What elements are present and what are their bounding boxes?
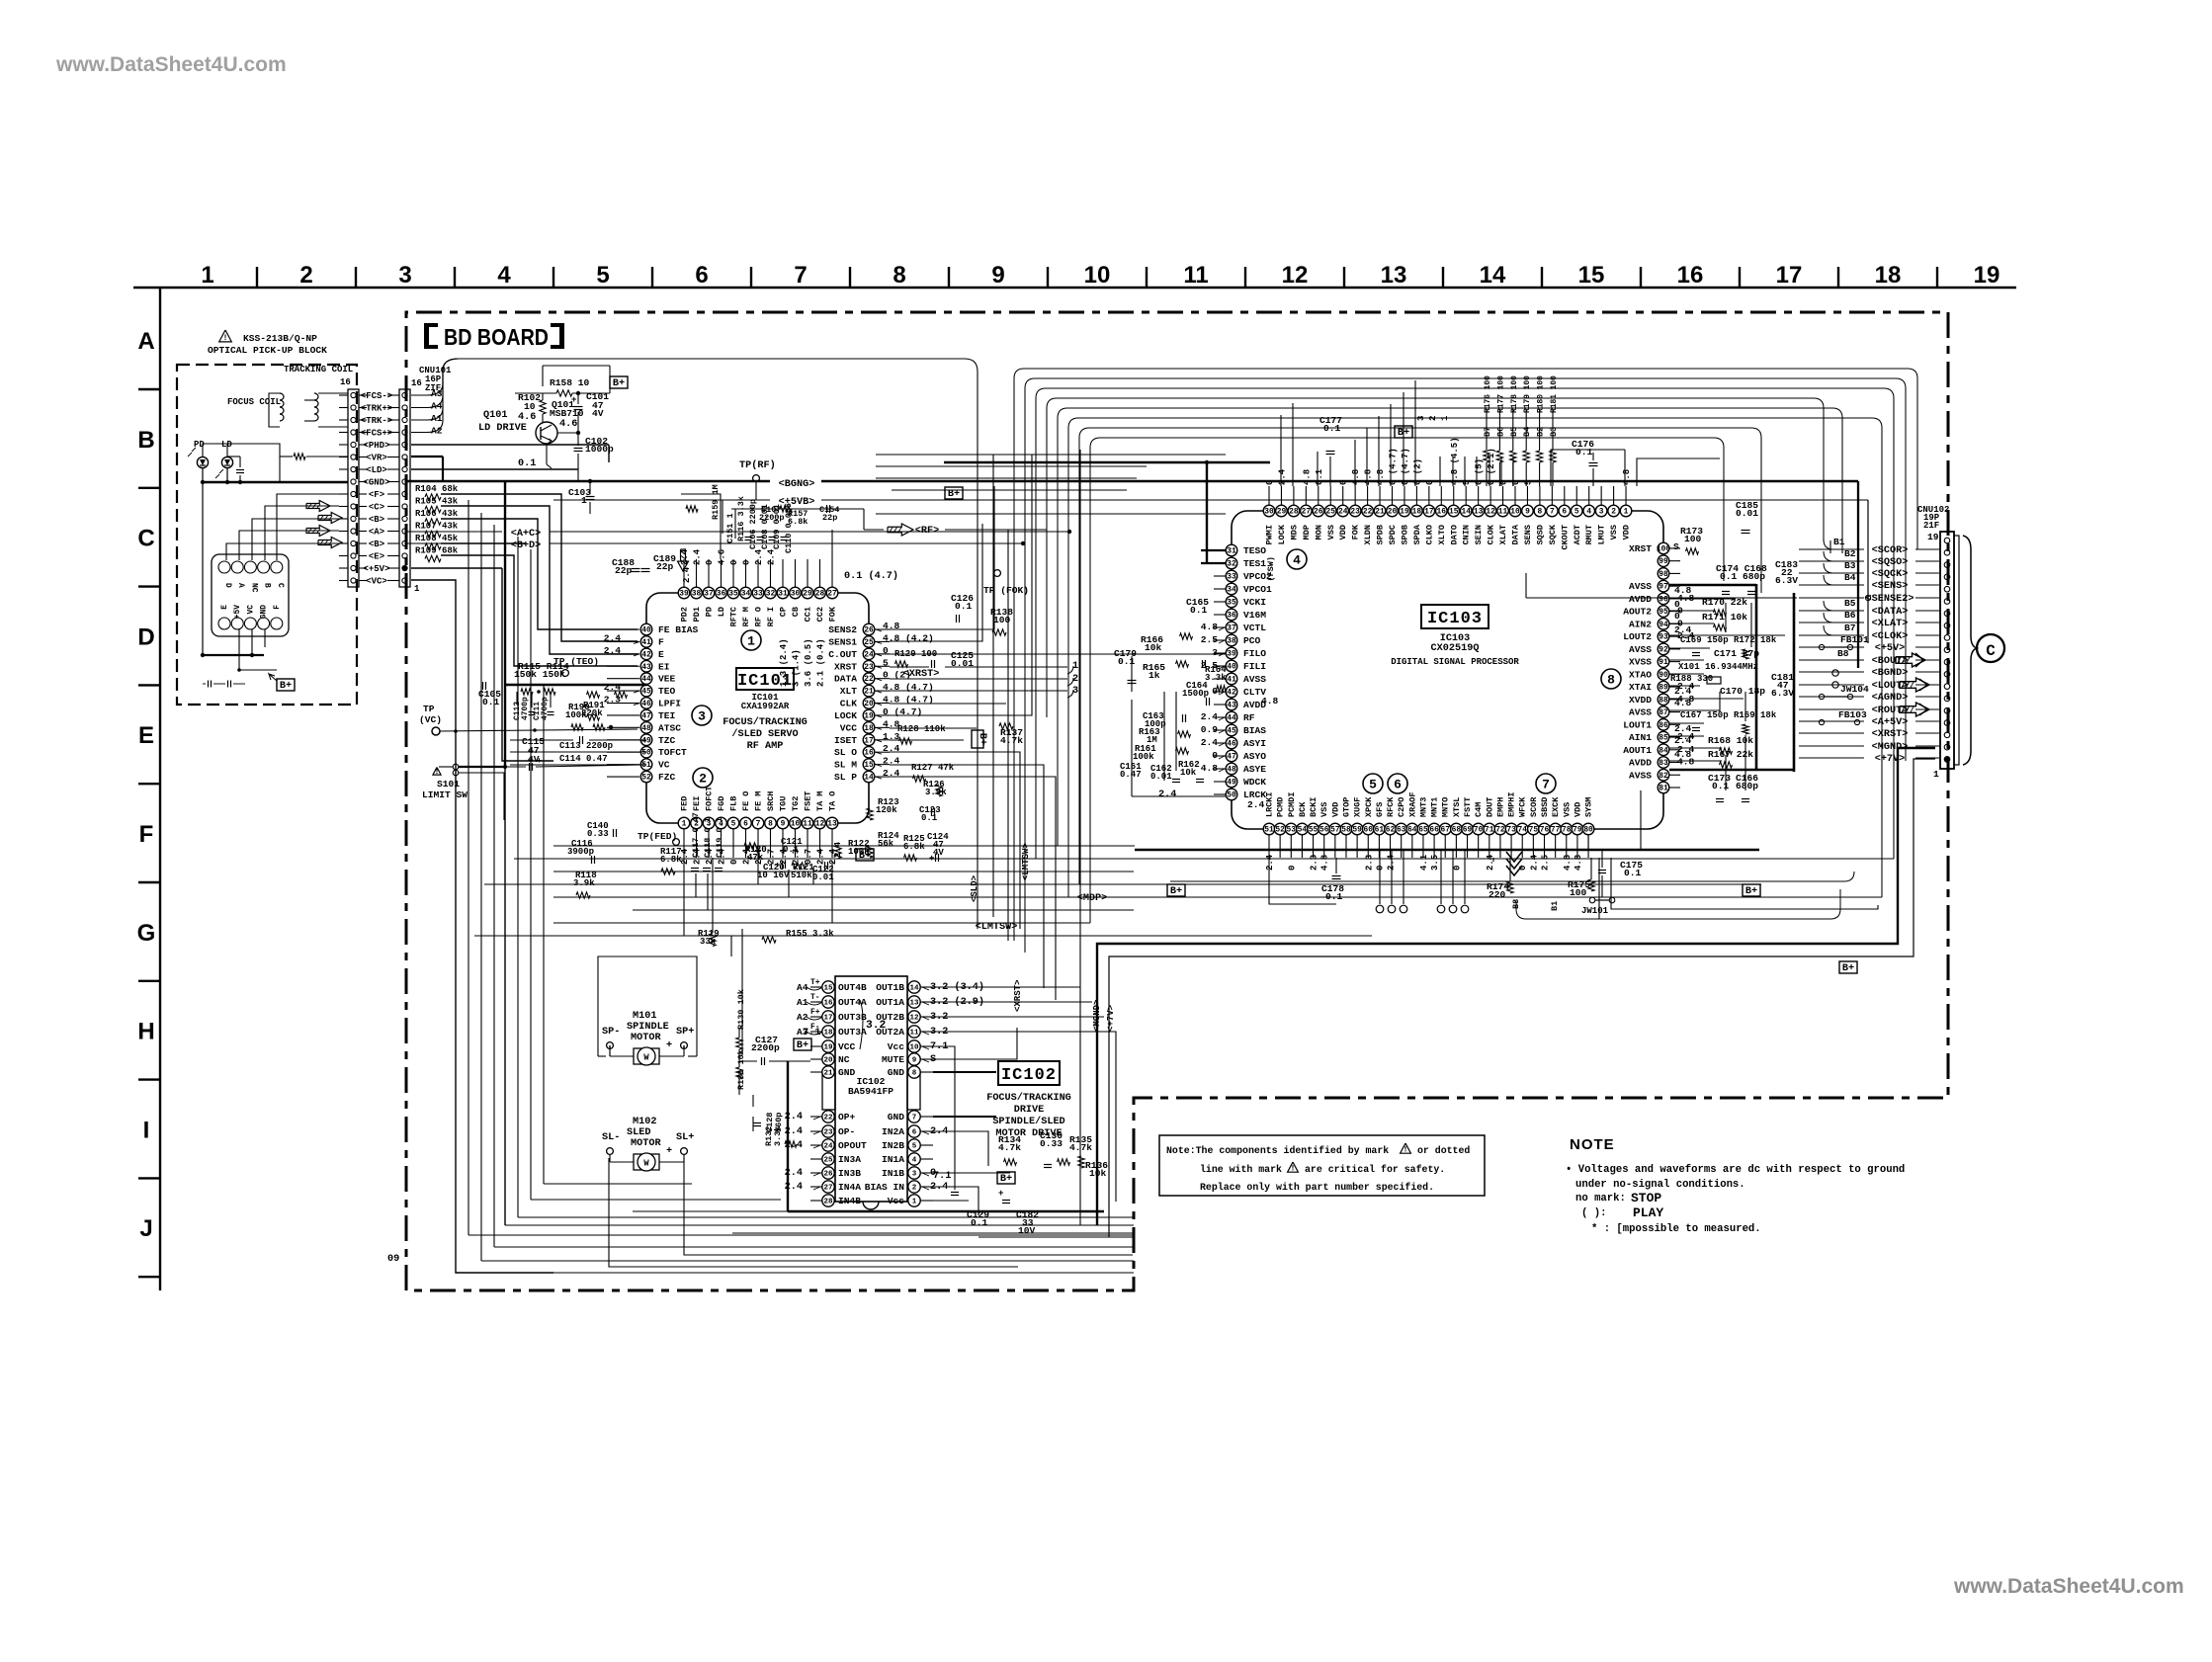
- svg-text:CC1: CC1: [804, 607, 813, 622]
- svg-text:XLDN: XLDN: [1363, 525, 1373, 544]
- svg-text:8: 8: [1607, 673, 1615, 688]
- svg-text:VDD: VDD: [1338, 525, 1348, 540]
- svg-text:21: 21: [864, 688, 874, 697]
- svg-text:under no-signal conditions.: under no-signal conditions.: [1575, 1179, 1745, 1191]
- svg-text:OUT1B: OUT1B: [876, 982, 904, 993]
- svg-text:<VR>: <VR>: [366, 454, 387, 463]
- svg-text:0: 0: [1265, 480, 1275, 485]
- svg-text:FE O: FE O: [741, 791, 751, 811]
- svg-text:22p: 22p: [822, 513, 837, 523]
- svg-text:1: 1: [747, 634, 755, 649]
- svg-text:48: 48: [641, 724, 651, 733]
- svg-text:53: 53: [1287, 826, 1297, 835]
- svg-text:www.DataSheet4U.com: www.DataSheet4U.com: [1953, 1575, 2184, 1598]
- svg-text:F: F: [273, 605, 282, 610]
- svg-text:99: 99: [1659, 557, 1668, 566]
- svg-text:LD DRIVE: LD DRIVE: [478, 423, 527, 434]
- svg-text:0: 0: [1674, 611, 1680, 622]
- svg-text:C170 18p: C170 18p: [1720, 686, 1765, 697]
- svg-text:RMUT: RMUT: [1584, 525, 1594, 544]
- svg-text:VPCO2: VPCO2: [1243, 571, 1272, 582]
- svg-text:30: 30: [791, 590, 801, 599]
- svg-text:<SQSO>: <SQSO>: [1872, 557, 1909, 568]
- svg-text:SL P: SL P: [834, 772, 857, 783]
- svg-text:16: 16: [340, 377, 351, 387]
- svg-text:IN4B: IN4B: [838, 1196, 861, 1206]
- svg-text:29: 29: [803, 590, 812, 599]
- svg-text:FILI: FILI: [1243, 661, 1266, 672]
- svg-text:25: 25: [823, 1156, 833, 1164]
- svg-text:<SENS>: <SENS>: [1872, 581, 1909, 592]
- svg-text:82: 82: [1659, 772, 1668, 781]
- svg-text:XRST: XRST: [1629, 543, 1652, 554]
- svg-text:49: 49: [1227, 779, 1236, 788]
- svg-text:RF AMP: RF AMP: [747, 741, 784, 752]
- svg-text:VC: VC: [658, 760, 670, 771]
- svg-text:91: 91: [1659, 658, 1668, 667]
- svg-text:1k: 1k: [1149, 670, 1160, 681]
- svg-text:VDD: VDD: [1573, 802, 1582, 817]
- svg-text:R107 43k: R107 43k: [415, 522, 459, 532]
- svg-text:44: 44: [641, 675, 651, 684]
- svg-text:51: 51: [641, 761, 651, 770]
- svg-text:4.8: 4.8: [1364, 469, 1374, 485]
- svg-text:FOFCT: FOFCT: [705, 786, 715, 811]
- svg-text:IN1B: IN1B: [882, 1168, 904, 1179]
- svg-text:46: 46: [1227, 740, 1236, 749]
- svg-text:76: 76: [1540, 826, 1550, 835]
- svg-text:45: 45: [641, 688, 651, 697]
- svg-text:15: 15: [1449, 508, 1459, 517]
- svg-text:22p: 22p: [615, 565, 633, 576]
- svg-text:B+: B+: [948, 489, 960, 500]
- svg-text:+: +: [571, 395, 576, 405]
- svg-text:R180 100: R180 100: [1537, 375, 1546, 413]
- svg-text:<SENSE2>: <SENSE2>: [1866, 594, 1914, 605]
- svg-text:AVSS: AVSS: [1629, 707, 1652, 718]
- svg-text:B+: B+: [613, 378, 625, 389]
- svg-text:PD: PD: [705, 607, 715, 617]
- svg-text:NC: NC: [838, 1054, 850, 1065]
- svg-text:4.8: 4.8: [1261, 696, 1279, 706]
- svg-text:<FCS->: <FCS->: [361, 391, 392, 401]
- svg-text:<B>: <B>: [369, 515, 384, 525]
- svg-text:83: 83: [1659, 759, 1668, 768]
- svg-text:XTSL: XTSL: [1452, 797, 1462, 817]
- svg-text:PLAY: PLAY: [1633, 1205, 1663, 1220]
- svg-text:21F: 21F: [1923, 521, 1939, 531]
- svg-text:14: 14: [864, 774, 874, 783]
- svg-text:JW104: JW104: [1840, 684, 1869, 695]
- svg-text:XVSS: XVSS: [1629, 657, 1652, 668]
- svg-text:45: 45: [1227, 727, 1236, 736]
- svg-text:A: A: [236, 583, 245, 588]
- svg-text:F: F: [658, 636, 664, 647]
- svg-text:J: J: [139, 1215, 152, 1242]
- svg-text:0.33: 0.33: [1040, 1138, 1063, 1149]
- svg-text:B3: B3: [1844, 560, 1856, 571]
- svg-text:VSS: VSS: [1326, 525, 1336, 540]
- svg-text:46: 46: [641, 700, 651, 708]
- svg-text:B1: B1: [1833, 537, 1845, 547]
- svg-text:14: 14: [909, 984, 919, 992]
- svg-text:4.8: 4.8: [1674, 749, 1692, 760]
- svg-text:37: 37: [704, 590, 714, 599]
- svg-text:52: 52: [1275, 826, 1285, 835]
- svg-text:680p: 680p: [1736, 781, 1758, 791]
- svg-text:FOCUS/TRACKING: FOCUS/TRACKING: [723, 716, 808, 728]
- svg-text:26: 26: [823, 1170, 833, 1178]
- svg-text:9: 9: [1525, 508, 1530, 517]
- svg-text:CP: CP: [779, 607, 789, 617]
- svg-text:4.8: 4.8: [1376, 469, 1386, 485]
- svg-text:56: 56: [1319, 826, 1329, 835]
- svg-text:41: 41: [641, 638, 651, 647]
- svg-text:C171 27p: C171 27p: [1714, 648, 1759, 659]
- svg-text:CNIN: CNIN: [1462, 525, 1472, 544]
- svg-text:95: 95: [1659, 608, 1668, 617]
- svg-text:36: 36: [1227, 612, 1236, 621]
- svg-text:24: 24: [823, 1142, 833, 1150]
- svg-text:XTAI: XTAI: [1629, 682, 1652, 693]
- svg-text:B+: B+: [1170, 886, 1182, 897]
- svg-text:IN2B: IN2B: [882, 1140, 904, 1151]
- svg-text:C114 0.47: C114 0.47: [559, 754, 608, 764]
- svg-text:1.3 (2.4): 1.3 (2.4): [779, 638, 789, 687]
- svg-text:16: 16: [864, 749, 874, 758]
- svg-text:PD1: PD1: [692, 607, 702, 622]
- svg-text:FED: FED: [680, 796, 690, 811]
- svg-text:18: 18: [1875, 262, 1902, 289]
- svg-text:MNT3: MNT3: [1418, 797, 1428, 817]
- svg-text:• Voltages and waveforms are d: • Voltages and waveforms are dc with res…: [1566, 1164, 1905, 1176]
- svg-text:<+7V>: <+7V>: [1106, 1005, 1116, 1032]
- svg-text:MNTO: MNTO: [1441, 797, 1451, 817]
- svg-text:VSS: VSS: [1609, 525, 1619, 540]
- svg-text:+: +: [666, 1146, 672, 1157]
- svg-text:R177 100: R177 100: [1496, 375, 1505, 413]
- svg-text:33: 33: [1227, 573, 1236, 582]
- svg-text:5: 5: [1523, 480, 1533, 485]
- svg-text:/SLED SERVO: /SLED SERVO: [731, 728, 798, 740]
- svg-text:2.5: 2.5: [1541, 855, 1551, 871]
- svg-text:R176 100: R176 100: [1484, 375, 1492, 413]
- svg-text:10k: 10k: [1180, 768, 1197, 778]
- svg-text:43: 43: [1227, 702, 1236, 710]
- svg-text:12: 12: [815, 820, 825, 829]
- svg-text:<BGND>: <BGND>: [1872, 668, 1909, 679]
- svg-text:ASYE: ASYE: [1243, 764, 1266, 775]
- svg-text:<VC>: <VC>: [366, 577, 387, 587]
- svg-text:MOTOR: MOTOR: [631, 1033, 661, 1043]
- svg-text:IN3A: IN3A: [838, 1154, 861, 1165]
- svg-text:8: 8: [1538, 508, 1543, 517]
- svg-text:12: 12: [909, 1014, 919, 1022]
- svg-text:10V: 10V: [1018, 1225, 1036, 1236]
- svg-text:7: 7: [912, 1114, 917, 1122]
- svg-text:<AGND>: <AGND>: [1872, 693, 1909, 704]
- svg-text:FE BIAS: FE BIAS: [658, 624, 699, 635]
- svg-text:54: 54: [1298, 826, 1308, 835]
- svg-text:2.4: 2.4: [1529, 854, 1539, 871]
- svg-text:PD2: PD2: [680, 607, 690, 622]
- svg-text:2.4: 2.4: [754, 548, 764, 565]
- svg-text:R128 110k: R128 110k: [897, 724, 946, 734]
- svg-text:19: 19: [864, 711, 874, 720]
- svg-text:<FCS+>: <FCS+>: [361, 429, 392, 439]
- svg-text:3900p: 3900p: [567, 847, 594, 857]
- svg-text:(VC): (VC): [419, 714, 442, 725]
- svg-text:XVDD: XVDD: [1629, 695, 1652, 706]
- svg-text:DATA: DATA: [1511, 524, 1521, 544]
- svg-text:B8: B8: [1837, 648, 1849, 659]
- svg-text:15: 15: [864, 761, 874, 770]
- svg-text:E: E: [220, 605, 229, 610]
- svg-text:FILO: FILO: [1243, 648, 1266, 659]
- svg-text:75: 75: [1529, 826, 1539, 835]
- svg-text:AVSS: AVSS: [1629, 644, 1652, 655]
- svg-text:35: 35: [1227, 599, 1236, 608]
- svg-text:SPDA: SPDA: [1412, 524, 1422, 544]
- svg-text:AVDD: AVDD: [1629, 594, 1652, 605]
- svg-text:0.1: 0.1: [1118, 656, 1136, 667]
- svg-text:5: 5: [1462, 480, 1472, 485]
- svg-text:2200p: 2200p: [751, 1042, 780, 1053]
- svg-text:62: 62: [1386, 826, 1396, 835]
- svg-text:0: 0: [1674, 599, 1680, 610]
- svg-text:LOCK: LOCK: [1277, 524, 1287, 544]
- svg-text:FEI: FEI: [692, 796, 702, 811]
- svg-text:GND: GND: [260, 605, 269, 619]
- svg-text:CC2: CC2: [815, 607, 825, 622]
- svg-text:OUT4B: OUT4B: [838, 982, 867, 993]
- svg-text:10: 10: [524, 401, 536, 412]
- svg-text:57: 57: [1330, 826, 1340, 835]
- svg-text:42: 42: [1227, 689, 1236, 698]
- svg-text:27: 27: [823, 1184, 832, 1192]
- svg-text:0.47: 0.47: [1120, 770, 1142, 780]
- svg-text:0: 0: [742, 560, 752, 565]
- svg-text:2.4: 2.4: [680, 548, 690, 565]
- svg-text:line with mark: line with mark: [1200, 1164, 1282, 1175]
- svg-text:72: 72: [1495, 826, 1505, 835]
- svg-text:35: 35: [728, 590, 738, 599]
- svg-text:!: !: [435, 768, 440, 777]
- svg-text:TP: TP: [423, 704, 435, 714]
- svg-text:63: 63: [1397, 826, 1406, 835]
- svg-text:R178 100: R178 100: [1510, 375, 1519, 413]
- svg-text:RF: RF: [1243, 712, 1255, 723]
- svg-text:20: 20: [823, 1056, 833, 1064]
- svg-text:AIN1: AIN1: [1629, 732, 1652, 743]
- svg-text:50: 50: [1227, 791, 1236, 800]
- svg-text:<B+D>: <B+D>: [511, 540, 542, 551]
- svg-text:CLK: CLK: [840, 699, 858, 709]
- svg-text:2.4: 2.4: [1247, 799, 1265, 810]
- svg-text:3.3k: 3.3k: [773, 1126, 783, 1146]
- svg-text:43: 43: [641, 663, 651, 672]
- svg-text:120k: 120k: [876, 805, 897, 815]
- svg-text:28: 28: [823, 1198, 833, 1205]
- svg-text:97: 97: [1659, 583, 1668, 592]
- svg-text:E: E: [658, 649, 664, 660]
- svg-text:RF I: RF I: [766, 607, 776, 626]
- svg-text:0.1: 0.1: [1624, 868, 1642, 878]
- svg-text:31: 31: [1227, 547, 1236, 556]
- svg-text:12: 12: [1486, 508, 1495, 517]
- svg-text:H: H: [137, 1019, 154, 1045]
- svg-text:V16M: V16M: [1243, 610, 1266, 621]
- svg-text:ISET: ISET: [834, 735, 857, 746]
- svg-text:22: 22: [864, 675, 874, 684]
- svg-text:26: 26: [864, 626, 874, 635]
- svg-text:37: 37: [1227, 624, 1236, 633]
- svg-text:9: 9: [781, 820, 786, 829]
- svg-text:B+: B+: [1000, 1174, 1012, 1185]
- svg-text:FOCUS COIL: FOCUS COIL: [227, 397, 281, 407]
- svg-text:R104 68k: R104 68k: [415, 484, 459, 494]
- svg-text:6.8k: 6.8k: [788, 517, 808, 527]
- svg-text:33: 33: [753, 590, 763, 599]
- svg-text:47: 47: [1227, 753, 1236, 762]
- svg-text:TZC: TZC: [658, 735, 676, 746]
- svg-text:4.7k: 4.7k: [1000, 735, 1023, 746]
- svg-text:B: B: [263, 583, 272, 588]
- svg-text:SENS1: SENS1: [828, 636, 857, 647]
- svg-text:B6: B6: [1844, 610, 1856, 621]
- svg-text:0.1: 0.1: [1575, 447, 1593, 457]
- svg-text:17: 17: [823, 1014, 832, 1022]
- svg-text:81: 81: [1659, 785, 1668, 793]
- svg-text:S101: S101: [437, 779, 460, 789]
- svg-text:LOUT2: LOUT2: [1623, 631, 1652, 642]
- svg-text:LPFI: LPFI: [658, 699, 681, 709]
- svg-text:4.6: 4.6: [718, 549, 727, 565]
- svg-text:SEIN: SEIN: [1474, 525, 1484, 544]
- svg-text:SCOR: SCOR: [1529, 796, 1539, 817]
- svg-text:2.1 (0.4): 2.1 (0.4): [816, 638, 826, 687]
- svg-text:<B>: <B>: [369, 540, 384, 549]
- svg-text:SPOB: SPOB: [1400, 525, 1409, 544]
- svg-text:15: 15: [823, 984, 833, 992]
- svg-text:B2: B2: [1844, 548, 1856, 559]
- svg-text:4: 4: [1586, 508, 1591, 517]
- svg-text:PCMDI: PCMDI: [1287, 791, 1297, 817]
- svg-text:0.01: 0.01: [812, 873, 834, 882]
- svg-text:no mark:: no mark:: [1575, 1193, 1626, 1205]
- svg-text:47: 47: [641, 711, 651, 720]
- svg-text:SL-: SL-: [602, 1132, 620, 1143]
- svg-text:60: 60: [1364, 826, 1374, 835]
- svg-text:44: 44: [1227, 714, 1236, 723]
- svg-text:3: 3: [1599, 508, 1604, 517]
- svg-text:OPTICAL PICK-UP BLOCK: OPTICAL PICK-UP BLOCK: [208, 345, 327, 356]
- svg-text:VDD: VDD: [1330, 802, 1340, 817]
- svg-text:T-: T-: [810, 993, 819, 1002]
- svg-text:24: 24: [864, 650, 874, 659]
- svg-text:( ):: ( ):: [1581, 1207, 1606, 1219]
- svg-text:OUT4A: OUT4A: [838, 997, 867, 1008]
- svg-text:0.01: 0.01: [1736, 508, 1758, 519]
- svg-text:GND: GND: [888, 1067, 905, 1078]
- svg-text:AVSS: AVSS: [1629, 581, 1652, 592]
- svg-text:<A+C>: <A+C>: [511, 529, 542, 540]
- svg-text:0.1: 0.1: [1712, 781, 1730, 791]
- svg-text:16: 16: [411, 378, 422, 388]
- svg-text:R168 10k: R168 10k: [1708, 735, 1753, 746]
- svg-text:16: 16: [1437, 508, 1447, 517]
- svg-text:4.6: 4.6: [518, 412, 536, 423]
- svg-text:26: 26: [1314, 508, 1323, 517]
- svg-text:OP-: OP-: [838, 1126, 855, 1137]
- svg-text:0.1: 0.1: [955, 601, 973, 612]
- svg-text:C118 0.1: C118 0.1: [703, 817, 713, 858]
- svg-text:20: 20: [864, 700, 874, 708]
- svg-text:B+: B+: [797, 1040, 808, 1051]
- svg-text:BD BOARD: BD BOARD: [444, 324, 549, 350]
- svg-text:+: +: [666, 1040, 672, 1051]
- svg-text:18: 18: [823, 1029, 833, 1037]
- svg-text:AVDD: AVDD: [1629, 758, 1652, 769]
- svg-text:66: 66: [1429, 826, 1439, 835]
- svg-text:C4M: C4M: [1474, 802, 1484, 817]
- svg-text:4: 4: [497, 262, 511, 289]
- svg-text:28: 28: [815, 590, 825, 599]
- svg-text:FLB: FLB: [729, 796, 739, 811]
- svg-text:3: 3: [698, 709, 706, 724]
- svg-text:<A+5V>: <A+5V>: [1872, 717, 1909, 728]
- svg-text:100: 100: [1570, 887, 1587, 898]
- svg-text:47k: 47k: [747, 853, 764, 863]
- svg-text:25: 25: [1326, 508, 1336, 517]
- svg-text:0: 0: [1287, 866, 1297, 871]
- svg-text:22: 22: [1363, 508, 1373, 517]
- svg-text:CLKO: CLKO: [1424, 525, 1434, 544]
- svg-text:0 (4.7): 0 (4.7): [1389, 448, 1399, 485]
- svg-text:67: 67: [1440, 826, 1450, 835]
- svg-text:EMPHI: EMPHI: [1507, 791, 1517, 817]
- svg-text:5: 5: [912, 1142, 917, 1150]
- svg-text:PWMI: PWMI: [1265, 525, 1275, 544]
- svg-text:LOCK: LOCK: [834, 710, 857, 721]
- svg-text:R155 3.3k: R155 3.3k: [786, 929, 834, 939]
- svg-text:TP(RF): TP(RF): [739, 459, 776, 471]
- svg-text:3.6 (0.5): 3.6 (0.5): [804, 638, 813, 687]
- svg-text:B: B: [137, 427, 154, 454]
- svg-text:42: 42: [641, 650, 651, 659]
- svg-text:GND: GND: [838, 1067, 856, 1078]
- svg-text:<+5V>: <+5V>: [1875, 643, 1906, 654]
- svg-text:OP+: OP+: [838, 1112, 856, 1122]
- svg-text:4: 4: [1293, 553, 1301, 568]
- svg-text:LD: LD: [717, 607, 726, 617]
- svg-text:R188 330: R188 330: [1670, 674, 1713, 684]
- svg-text:4.1: 4.1: [1419, 854, 1429, 871]
- svg-text:36: 36: [717, 590, 726, 599]
- svg-text:65: 65: [1418, 826, 1428, 835]
- svg-text:BIAS: BIAS: [1243, 725, 1266, 736]
- svg-text:<LMTSW>: <LMTSW>: [976, 922, 1018, 933]
- svg-text:ACDT: ACDT: [1573, 525, 1582, 544]
- svg-text:R116 3.3k: R116 3.3k: [736, 496, 746, 541]
- svg-text:15: 15: [1578, 262, 1605, 289]
- svg-text:220: 220: [1489, 889, 1506, 900]
- svg-text:XRAOF: XRAOF: [1407, 791, 1417, 817]
- svg-text:23: 23: [1350, 508, 1360, 517]
- svg-text:F: F: [139, 821, 154, 848]
- svg-text:34: 34: [741, 590, 751, 599]
- svg-text:TRACKING COIL: TRACKING COIL: [284, 365, 353, 374]
